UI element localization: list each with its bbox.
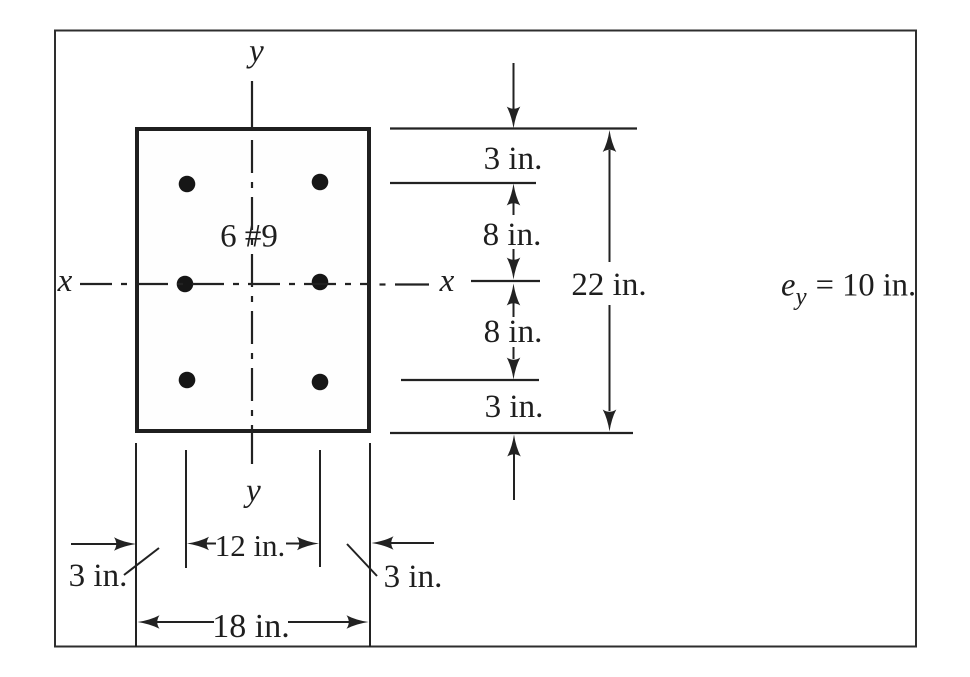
rebar dot mid-right	[312, 274, 329, 291]
3 in. right arrow pointing left	[390, 542, 434, 544]
svg-text:y: y	[246, 34, 264, 70]
y axis solid top segment	[251, 81, 253, 127]
svg-text:8 in.: 8 in.	[483, 217, 542, 253]
y axis solid bottom segment	[251, 433, 253, 464]
svg-text:3 in.: 3 in.	[384, 559, 443, 595]
12 in. dimension right arrow	[286, 543, 301, 545]
arrow up to line E from below	[513, 453, 515, 500]
x axis dash right of rect	[395, 283, 429, 285]
3 in. left slash leader	[124, 548, 159, 575]
rebar dot top-right	[312, 174, 329, 191]
22 in. dimension line lower segment with down arrow	[609, 305, 611, 411]
extension line left edge below rect	[135, 443, 137, 647]
svg-text:6 #9: 6 #9	[220, 219, 278, 255]
arrow up from below line C	[513, 303, 515, 317]
dimension line bottom edge (E)	[390, 432, 633, 434]
svg-text:3 in.: 3 in.	[485, 389, 544, 425]
svg-text:22 in.: 22 in.	[571, 267, 646, 303]
column cross-section rectangle	[137, 129, 369, 431]
y axis dash-dot centerline	[251, 140, 253, 433]
x axis dash-dot centerline	[80, 283, 369, 285]
svg-text:8 in.: 8 in.	[484, 314, 543, 350]
svg-text:12 in.: 12 in.	[215, 528, 286, 563]
arrow down to line A	[513, 63, 515, 110]
x axis dot right of rect	[380, 283, 386, 285]
arrow up to line B	[513, 202, 515, 215]
dimension line x-level (C)	[471, 280, 540, 282]
extension line left bar column	[185, 450, 187, 568]
22 in. dimension line upper segment with up arrow	[609, 150, 611, 262]
dimension line top edge (A)	[390, 127, 637, 129]
arrow down to line D	[513, 347, 515, 359]
svg-text:y: y	[243, 473, 261, 509]
rebar dot bottom-right	[312, 374, 329, 391]
extension line right edge below rect	[369, 443, 371, 647]
arrow down to line C	[513, 249, 515, 261]
extension line right bar column	[319, 450, 321, 567]
3 in. left arrow pointing right	[71, 543, 118, 545]
rebar dot bottom-left	[179, 372, 196, 389]
svg-text:x: x	[57, 263, 73, 299]
18 in. dimension right arrow	[288, 621, 350, 623]
18 in. dimension left arrow	[156, 621, 214, 623]
rebar dot mid-left	[177, 276, 194, 293]
12 in. dimension left arrow	[205, 543, 216, 545]
dimension line top bars (B)	[390, 182, 536, 184]
3 in. right slash leader	[347, 544, 377, 576]
svg-text:18 in.: 18 in.	[212, 608, 289, 645]
svg-text:3 in.: 3 in.	[484, 141, 543, 177]
rebar dot top-left	[179, 176, 196, 193]
svg-text:3 in.: 3 in.	[69, 558, 128, 594]
dimension line bottom bars (D)	[401, 379, 539, 381]
svg-text:x: x	[439, 263, 455, 299]
